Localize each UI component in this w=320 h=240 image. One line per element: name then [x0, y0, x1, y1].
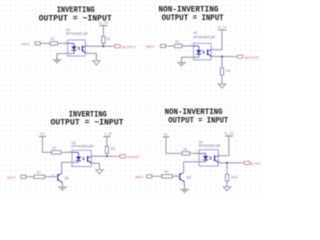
svg-text:R7: R7 — [37, 172, 41, 176]
svg-text:1: 1 — [175, 174, 177, 177]
node junction C4 — [226, 162, 228, 164]
svg-text:In_5V: In_5V — [99, 21, 109, 25]
wire emitter to ground C1 — [85, 53, 96, 60]
wire cathode to Q2 collector — [184, 162, 206, 173]
resistor R6 — [105, 146, 115, 153]
wire emitter to ground C3 — [91, 163, 99, 169]
svg-text:R9: R9 — [164, 171, 168, 175]
svg-text:OUTPUT: OUTPUT — [245, 57, 260, 61]
LED inside U2 — [194, 46, 202, 57]
svg-text:V_DD: V_DD — [104, 132, 112, 136]
wire R2 to power C1 — [102, 26, 104, 37]
wire emitter to output row C2 — [211, 56, 235, 58]
svg-text:In_5V: In_5V — [217, 25, 227, 29]
ground earth Q2 emitter — [180, 189, 189, 192]
LED inside U1 — [67, 43, 76, 53]
ground signal C4 — [223, 187, 230, 191]
wire base Q1 — [45, 176, 58, 178]
svg-text:R10: R10 — [231, 177, 237, 181]
power In_5V C2 — [217, 25, 227, 30]
phototransistor U1 — [82, 46, 85, 54]
wire R10 to ground C4 — [226, 181, 228, 186]
port INPUT symbol C4 — [146, 175, 153, 178]
photon arrows U4 — [209, 157, 212, 160]
port OUTPUT symbol C1 — [112, 45, 120, 48]
svg-text:Q2: Q2 — [187, 176, 191, 180]
wire LED cathode to ground C1 — [57, 54, 74, 57]
wire junction to R6 — [106, 153, 108, 156]
svg-text:In_5V: In_5V — [224, 132, 234, 136]
photon arrows U2 — [202, 51, 205, 54]
wire port to R1 — [42, 42, 50, 44]
LED inside U3 — [72, 152, 81, 162]
resistor R8 — [182, 148, 190, 155]
power V_DD C3 — [103, 132, 112, 136]
resistor R3 — [175, 41, 183, 48]
svg-text:1: 1 — [52, 174, 54, 177]
wire R3 to U2 — [182, 45, 193, 47]
svg-text:U2: U2 — [193, 32, 197, 36]
svg-text:OPTOCOUPLER: OPTOCOUPLER — [66, 33, 88, 37]
wire port to R7 — [28, 176, 34, 178]
svg-text:OPTOCOUPLER: OPTOCOUPLER — [199, 145, 221, 149]
wire junction to R4 C2 — [221, 57, 223, 68]
phototransistor U2 — [208, 49, 212, 56]
phototransistor U4 — [215, 155, 219, 162]
resistor R2 — [102, 36, 111, 43]
ground signal C2 — [218, 84, 225, 88]
wire collector to output row C1 — [85, 45, 112, 47]
LED inside U4 — [199, 153, 208, 162]
resistor R1 — [50, 38, 58, 45]
svg-text:OUTPUT = INPUT: OUTPUT = INPUT — [162, 14, 224, 23]
pin numbers U3 — [69, 150, 94, 164]
wire collector to power C2 — [211, 30, 222, 50]
svg-text:OUTPUT = INPUT: OUTPUT = INPUT — [168, 116, 228, 125]
wire V+ to R5 — [43, 137, 52, 153]
svg-text:INPUT: INPUT — [146, 46, 155, 50]
svg-text:OUTPUT: OUTPUT — [127, 157, 139, 161]
photon arrows U3 — [82, 157, 85, 160]
power V+ C4 — [163, 134, 169, 138]
pin numbers U1 — [65, 41, 89, 54]
svg-text:R2: R2 — [107, 38, 111, 42]
wire R8 to U4 — [190, 152, 199, 154]
ground signal C3 emitter side — [96, 170, 103, 174]
port INPUT symbol C3 — [21, 175, 28, 178]
resistor R7 — [34, 172, 45, 179]
wire Q2 emitter to ground — [184, 182, 186, 189]
ground earth C2 LED side — [177, 63, 186, 66]
wire base Q2 — [172, 175, 179, 177]
wire LED cathode to ground C2 — [182, 57, 199, 62]
svg-text:R4: R4 — [226, 70, 230, 74]
resistor R5 — [52, 147, 62, 154]
svg-text:Q1: Q1 — [65, 177, 69, 181]
svg-text:OUTPUT = ~INPUT: OUTPUT = ~INPUT — [51, 119, 124, 128]
optocoupler U1 box — [68, 40, 86, 56]
wire collector to output row C3 — [91, 155, 118, 157]
svg-text:OUTPUT: OUTPUT — [122, 47, 137, 51]
wire R6 to power — [106, 137, 108, 147]
power In_5V C4 — [224, 132, 234, 136]
wire R5 to U3 — [61, 151, 72, 153]
wire port to R9 — [154, 175, 162, 177]
svg-text:OUTPUT: OUTPUT — [250, 163, 261, 167]
power In_5V C1 — [99, 21, 109, 25]
port INPUT symbol C1 — [35, 42, 42, 45]
transistor Q2 — [180, 172, 191, 182]
svg-text:INPUT: INPUT — [21, 44, 30, 48]
ground earth C1 LED side — [53, 54, 62, 63]
background grid — [0, 0, 264, 200]
port OUTPUT symbol C4 — [242, 161, 250, 164]
optocoupler U2 box — [194, 43, 212, 60]
resistor R9 — [162, 171, 173, 178]
svg-text:OPTOCOUPLER: OPTOCOUPLER — [72, 146, 94, 150]
resistor R10 — [225, 174, 237, 181]
svg-text:R8: R8 — [183, 148, 187, 152]
svg-text:R5: R5 — [52, 147, 56, 151]
port OUTPUT symbol C3 — [118, 155, 126, 158]
svg-text:OPTOCOUPLER: OPTOCOUPLER — [193, 36, 215, 40]
wire R4 to ground C2 — [221, 75, 223, 84]
wire collector to power C4 — [218, 136, 229, 156]
photon arrows U1 — [77, 47, 80, 50]
wire junction to R10 — [226, 163, 228, 174]
port OUTPUT symbol C2 — [235, 55, 243, 58]
pin numbers U2 — [191, 44, 215, 58]
node junction C1 — [102, 45, 104, 47]
resistor R4 — [220, 68, 230, 75]
power V+ C3 — [39, 133, 46, 137]
wire cathode to Q1 collector — [62, 162, 79, 173]
optocoupler U3 box — [72, 150, 91, 166]
port INPUT symbol C2 — [160, 44, 167, 47]
node junction C3 — [106, 155, 108, 157]
wire R1 to U1 — [58, 42, 68, 44]
ground earth Q1 emitter — [58, 187, 67, 190]
ground signal C1 emitter side — [93, 61, 100, 65]
svg-text:INPUT: INPUT — [7, 177, 16, 181]
svg-text:INPUT: INPUT — [135, 176, 144, 180]
wire port to R3 — [168, 45, 175, 47]
optocoupler U4 box — [199, 150, 218, 166]
node junction C2 — [221, 56, 223, 58]
transistor Q1 — [58, 173, 69, 183]
svg-text:R1: R1 — [51, 38, 55, 42]
pin numbers U4 — [196, 151, 221, 163]
svg-text:R6: R6 — [111, 148, 115, 152]
phototransistor U3 — [88, 156, 92, 163]
wire junction to R2 C1 — [102, 43, 104, 46]
svg-text:R3: R3 — [175, 41, 179, 45]
wire Q1 emitter to ground — [62, 183, 64, 187]
wire V+ to R8 — [166, 137, 182, 154]
wire emitter to output row C4 — [218, 162, 242, 164]
